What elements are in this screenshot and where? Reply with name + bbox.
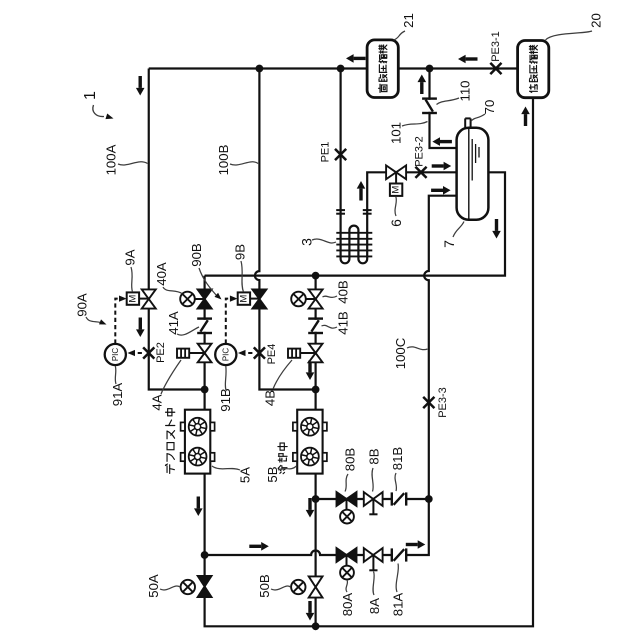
svg-text:5B: 5B: [265, 466, 280, 482]
expansion device 41B: [308, 319, 323, 333]
svg-text:PE3-3: PE3-3: [437, 387, 449, 418]
label 9B: [233, 244, 248, 292]
svg-text:3: 3: [299, 238, 315, 246]
svg-text:91B: 91B: [218, 388, 233, 412]
label 81B: [390, 447, 405, 491]
svg-text:70: 70: [482, 100, 497, 115]
label 4A: [149, 360, 181, 411]
controller PIC 91B with control lines: [215, 296, 254, 366]
svg-text:40A: 40A: [154, 262, 169, 286]
label 1: [82, 91, 114, 119]
svg-text:PE1: PE1: [320, 142, 332, 163]
sensor PE3-2: [415, 167, 426, 178]
svg-text:1: 1: [82, 91, 99, 100]
flow arrow left toward PE3-1: [458, 55, 478, 64]
flow arrow right on tank lower inlet: [431, 186, 451, 195]
svg-text:6: 6: [388, 219, 404, 227]
receiver tank 7: [457, 128, 489, 220]
flow arrow down below fan unit 5B: [306, 498, 315, 518]
valve 9A (open) with motor: [127, 289, 156, 308]
label 21: [394, 13, 417, 40]
wire 101 from top header through valve 110 to tank upper inlet: [430, 69, 457, 149]
svg-text:50B: 50B: [257, 574, 272, 598]
svg-text:5A: 5A: [238, 467, 253, 483]
svg-text:8A: 8A: [367, 598, 382, 614]
sensor PE3-1: [490, 63, 501, 74]
label 90B: [189, 243, 222, 299]
valve 9B (closed) with motor: [238, 289, 267, 308]
label 41A: [166, 311, 199, 335]
label 81A: [391, 564, 406, 617]
svg-text:PIC: PIC: [221, 348, 230, 362]
svg-text:PE2: PE2: [155, 342, 167, 363]
label 20: [546, 13, 604, 40]
flow arrow left on line 101: [432, 137, 452, 146]
label 40A: [154, 262, 182, 293]
junction PE1 line / top header: [337, 65, 345, 73]
svg-text:PE3-1: PE3-1: [490, 31, 502, 62]
manual valve 8B: [364, 492, 383, 514]
svg-text:PIC: PIC: [111, 348, 120, 362]
sensor PE4: [254, 347, 265, 358]
label 7: [441, 222, 464, 248]
flow arrow right on row y=555 at riser corner: [406, 540, 426, 549]
union fitting right coil pipe: [363, 210, 372, 214]
label 80B: [343, 448, 358, 492]
flow arrow right on row y=555 left part: [249, 542, 268, 551]
sensor PE1: [335, 149, 346, 160]
label 41B: [322, 311, 351, 335]
wire PE1 line / heat exchanger 3 serpentine / line to valve 6 and tank: [341, 69, 457, 264]
flow arrow down on 100A above PE2: [136, 318, 145, 338]
controller PIC 91A with control lines: [105, 296, 143, 366]
svg-text:81B: 81B: [390, 447, 405, 471]
svg-text:4B: 4B: [262, 390, 277, 406]
flow arrow left into compressor 21: [346, 54, 366, 63]
sensor PE2: [143, 347, 154, 358]
wire 100A main line: [149, 69, 205, 390]
fan coil unit 5A (defrosting): [181, 410, 215, 474]
fan coil unit 5B (cooling): [293, 410, 327, 474]
svg-text:80A: 80A: [340, 593, 355, 617]
svg-text:PE4: PE4: [266, 344, 278, 365]
valve 50B (open) with solenoid: [291, 576, 322, 597]
label 4B: [262, 360, 292, 406]
label 50A: [146, 574, 180, 598]
valve 50A (closed) with solenoid: [181, 576, 212, 597]
label 6: [388, 197, 404, 227]
flow arrow down above bottom junction of 50B line: [306, 601, 315, 621]
svg-text:50A: 50A: [146, 574, 161, 598]
svg-text:80B: 80B: [343, 448, 358, 472]
solenoid valve 40A (closed): [180, 289, 211, 308]
solenoid valve 40B (open): [291, 289, 322, 308]
label 5B: [265, 466, 297, 483]
junction 101 / top header: [426, 65, 434, 73]
sensor PE3-3: [423, 397, 434, 408]
svg-text:41A: 41A: [166, 311, 181, 335]
flow arrow down on branch B above row junction: [306, 361, 315, 381]
manual valve 8A: [364, 548, 383, 570]
flow arrow right on PE3-2 line: [432, 162, 452, 171]
wire branch B down through 40B/41B/4B to bottom line: [315, 276, 317, 627]
svg-text:100A: 100A: [103, 144, 118, 175]
svg-text:21: 21: [401, 13, 416, 28]
svg-text:8B: 8B: [367, 448, 382, 464]
label 40B: [323, 280, 351, 304]
junction branch B / bypass header: [312, 272, 320, 280]
label 101: [388, 122, 427, 145]
union fitting left coil pipe: [336, 210, 345, 214]
svg-text:40B: 40B: [336, 280, 351, 304]
wire 100C riser to tank lower inlet with hop over bypass header: [424, 196, 456, 499]
wire branch A down through 40A/41A/4A and on to bottom line, up to compressor 20: [205, 98, 533, 627]
expansion device 81B: [392, 492, 406, 505]
compressor 21 (high stage): [367, 40, 398, 98]
flow arrow up into compressor 20: [521, 107, 530, 127]
label 100A: [103, 144, 147, 175]
svg-text:20: 20: [589, 13, 604, 28]
junction branch B / 100B: [312, 386, 320, 394]
label 100C: [393, 337, 428, 369]
motor valve 6: [386, 165, 406, 196]
valve 80A (closed) with solenoid: [337, 548, 357, 579]
svg-text:100B: 100B: [216, 144, 231, 175]
valve 80B (closed) with solenoid: [337, 492, 357, 523]
wire row y=555 (80A/8A/81A) with hop over branch B: [205, 499, 429, 555]
junction branch A / 100A: [201, 386, 209, 394]
svg-text:7: 7: [441, 240, 457, 248]
expansion device 81A: [392, 548, 406, 561]
expansion valve 4A with sensor box: [177, 344, 212, 363]
label 70: [471, 100, 497, 122]
svg-text:81A: 81A: [391, 593, 406, 617]
svg-text:M: M: [238, 295, 249, 303]
label 90A: [75, 293, 107, 324]
junction line B / bottom line: [312, 622, 320, 630]
svg-text:90A: 90A: [75, 293, 90, 317]
label 8A: [367, 572, 382, 615]
status text cooling for 5B: [278, 443, 287, 474]
flow arrow up on valve 6 riser: [357, 181, 366, 201]
svg-text:110: 110: [458, 80, 473, 101]
heat exchanger 3 fins: [336, 233, 372, 257]
flow arrow down at top of 100A: [136, 76, 145, 96]
svg-text:9A: 9A: [122, 249, 137, 265]
svg-text:PE3-2: PE3-2: [414, 136, 426, 167]
label 110: [437, 80, 473, 104]
wire bypass header y=275.6 to tank: [205, 172, 505, 275]
label 5A: [212, 466, 253, 483]
svg-text:4A: 4A: [149, 394, 164, 410]
expansion device 110: [422, 99, 437, 113]
svg-text:101: 101: [388, 122, 403, 144]
svg-text:90B: 90B: [189, 243, 204, 267]
junction line A / row 555: [201, 551, 209, 559]
junction 100B / top header: [256, 65, 264, 73]
status text defrosting for 5A: [165, 409, 174, 474]
tank nozzle 70: [465, 118, 470, 127]
label 80A: [340, 580, 355, 616]
label 91A: [110, 366, 125, 406]
svg-text:9B: 9B: [233, 244, 248, 260]
label 9A: [122, 249, 137, 292]
junction rows / 100C riser: [425, 495, 433, 503]
wire 100B main line with hop over header: [255, 69, 316, 390]
label 91B: [218, 366, 233, 412]
label 100B: [216, 144, 258, 175]
junction line B / row 499: [312, 495, 320, 503]
label 50B: [257, 574, 291, 598]
expansion device 41A: [197, 319, 212, 333]
flow arrow down below fan unit 5A: [194, 497, 203, 517]
label 8B: [367, 448, 382, 491]
svg-text:100C: 100C: [393, 337, 408, 369]
svg-text:91A: 91A: [110, 383, 125, 407]
wire row y=499 (80B/8B/81B): [316, 498, 429, 500]
expansion valve 4B with sensor box: [288, 344, 323, 363]
svg-text:41B: 41B: [336, 311, 351, 335]
wire top discharge header y=68.5: [149, 67, 518, 69]
compressor 20 (low stage): [518, 41, 549, 98]
label 3: [299, 238, 337, 246]
svg-text:M: M: [127, 295, 138, 303]
flow arrow up above valve 110: [418, 75, 427, 95]
flow arrow down on tank right loop: [492, 219, 501, 239]
svg-text:M: M: [391, 186, 402, 194]
